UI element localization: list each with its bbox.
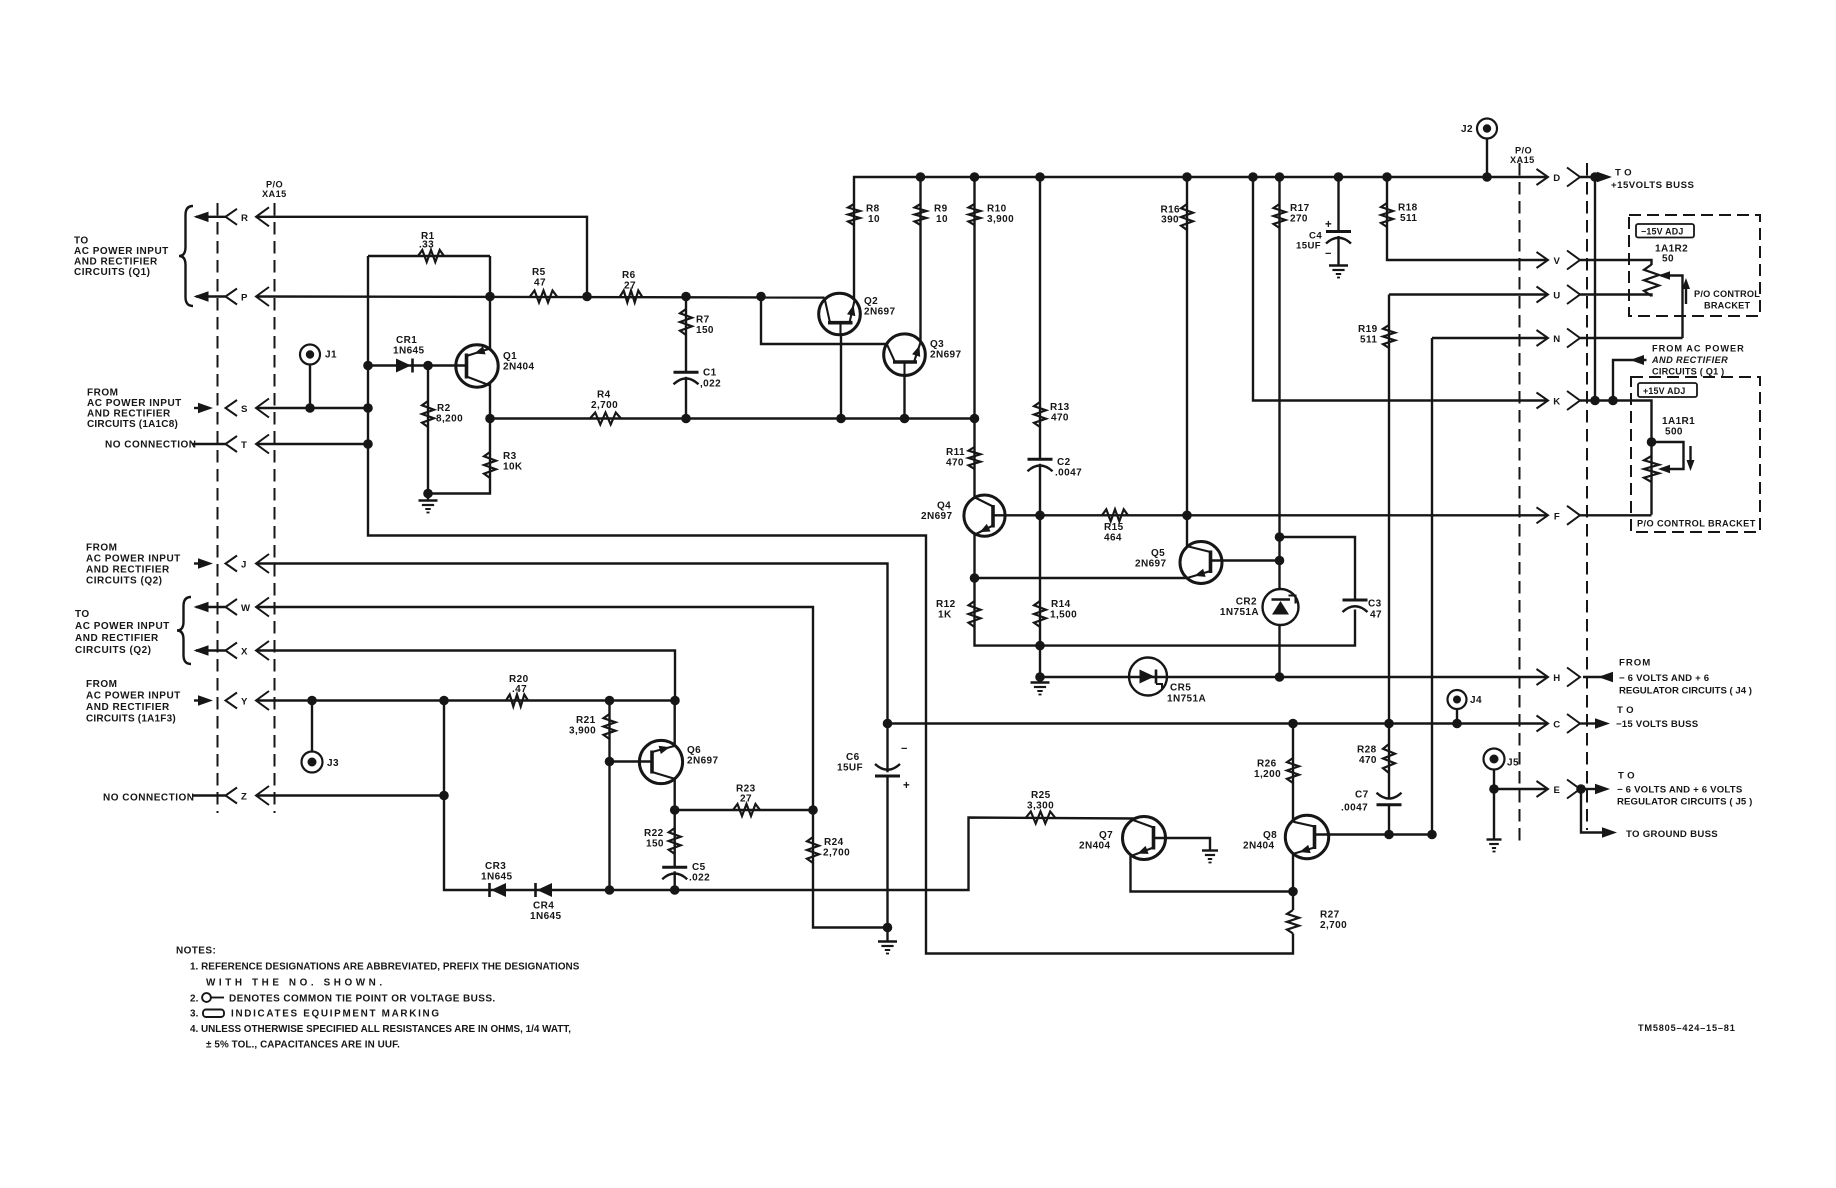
- svg-text:P/O: P/O: [266, 180, 283, 190]
- svg-text:X: X: [241, 647, 248, 658]
- svg-text:TM5805–424–15–81: TM5805–424–15–81: [1638, 1023, 1736, 1033]
- svg-text:Q7: Q7: [1099, 830, 1113, 841]
- svg-text:AND RECTIFIER: AND RECTIFIER: [87, 409, 171, 420]
- svg-text:P/O CONTROL BRACKET: P/O CONTROL BRACKET: [1637, 519, 1756, 529]
- svg-text:+: +: [1325, 219, 1332, 231]
- svg-text:C5: C5: [692, 862, 706, 873]
- svg-text:P/O CONTROL: P/O CONTROL: [1694, 289, 1760, 299]
- svg-text:R17: R17: [1290, 203, 1310, 214]
- svg-text:2N404: 2N404: [1079, 841, 1111, 852]
- svg-text:.33: .33: [419, 240, 434, 251]
- svg-text:WITH THE NO. SHOWN.: WITH THE NO. SHOWN.: [206, 978, 386, 989]
- svg-text:R11: R11: [946, 447, 965, 458]
- svg-text:R4: R4: [597, 390, 611, 401]
- svg-text:1N645: 1N645: [530, 911, 562, 922]
- svg-text:K: K: [1553, 397, 1560, 408]
- svg-text:2,700: 2,700: [823, 848, 850, 859]
- svg-text:C2: C2: [1057, 457, 1071, 468]
- svg-text:J1: J1: [325, 350, 337, 361]
- svg-text:C6: C6: [846, 752, 860, 763]
- svg-text:Q4: Q4: [937, 501, 951, 512]
- svg-text:464: 464: [1104, 533, 1122, 544]
- svg-text:R15: R15: [1104, 522, 1124, 533]
- svg-text:47: 47: [1370, 610, 1382, 621]
- svg-text:2N697: 2N697: [687, 756, 719, 767]
- svg-text:R19: R19: [1358, 324, 1378, 335]
- svg-text:2.: 2.: [190, 994, 199, 1005]
- svg-text:R6: R6: [622, 270, 636, 281]
- svg-text:− 6 VOLTS AND + 6: − 6 VOLTS AND + 6: [1619, 673, 1709, 684]
- svg-text:J3: J3: [327, 758, 339, 769]
- svg-text:FROM: FROM: [1619, 658, 1651, 669]
- svg-text:N: N: [1553, 334, 1560, 345]
- svg-text:50: 50: [1662, 254, 1674, 265]
- svg-text:15UF: 15UF: [837, 763, 863, 774]
- svg-text:FROM: FROM: [86, 543, 117, 554]
- svg-text:H: H: [1553, 673, 1560, 684]
- svg-text:R10: R10: [987, 204, 1007, 215]
- svg-text:R14: R14: [1051, 599, 1071, 610]
- svg-text:1N645: 1N645: [481, 872, 513, 883]
- svg-text:± 5% TOL., CAPACITANCES ARE IN: ± 5% TOL., CAPACITANCES ARE IN UUF.: [206, 1040, 400, 1051]
- svg-text:10K: 10K: [503, 462, 523, 473]
- svg-text:C: C: [1553, 720, 1560, 731]
- svg-text:C3: C3: [1368, 599, 1382, 610]
- svg-text:TO: TO: [1618, 771, 1638, 782]
- svg-text:3,900: 3,900: [987, 214, 1014, 225]
- svg-text:AND RECTIFIER: AND RECTIFIER: [86, 702, 170, 713]
- svg-text:−15V ADJ: −15V ADJ: [1641, 227, 1683, 237]
- svg-text:1K: 1K: [938, 610, 952, 621]
- svg-text:R9: R9: [934, 204, 948, 215]
- svg-text:10: 10: [936, 214, 948, 225]
- svg-text:TO: TO: [1615, 168, 1635, 179]
- svg-text:REGULATOR CIRCUITS ( J5 ): REGULATOR CIRCUITS ( J5 ): [1617, 797, 1752, 808]
- svg-text:J5: J5: [1507, 758, 1519, 769]
- svg-text:+: +: [903, 780, 910, 792]
- svg-text:D: D: [1553, 173, 1560, 184]
- svg-text:Y: Y: [241, 697, 248, 708]
- svg-text:2N697: 2N697: [1135, 559, 1167, 570]
- svg-text:R24: R24: [824, 837, 844, 848]
- svg-text:1. REFERENCE DESIGNATIONS ARE: 1. REFERENCE DESIGNATIONS ARE ABBREVIATE…: [190, 962, 580, 973]
- svg-text:2,700: 2,700: [1320, 920, 1347, 931]
- svg-text:150: 150: [696, 325, 714, 336]
- svg-text:511: 511: [1400, 213, 1417, 224]
- svg-text:TO GROUND BUSS: TO GROUND BUSS: [1626, 829, 1718, 840]
- svg-text:1N751A: 1N751A: [1167, 694, 1206, 705]
- svg-text:CR5: CR5: [1170, 683, 1191, 694]
- svg-text:NOTES:: NOTES:: [176, 946, 216, 957]
- svg-text:1,500: 1,500: [1050, 610, 1077, 621]
- svg-text:AC POWER INPUT: AC POWER INPUT: [75, 621, 170, 632]
- svg-text:R18: R18: [1398, 203, 1418, 214]
- svg-text:AND RECTIFIER: AND RECTIFIER: [75, 633, 159, 644]
- svg-text:CIRCUITS (Q1): CIRCUITS (Q1): [74, 267, 151, 278]
- svg-text:2N697: 2N697: [864, 307, 896, 318]
- svg-text:FROM AC POWER: FROM AC POWER: [1652, 344, 1745, 354]
- svg-text:R7: R7: [696, 315, 710, 326]
- svg-text:S: S: [241, 404, 248, 415]
- svg-text:T: T: [241, 440, 247, 451]
- svg-text:R2: R2: [437, 403, 451, 414]
- svg-text:AC POWER INPUT: AC POWER INPUT: [86, 691, 181, 702]
- svg-text:AC POWER INPUT: AC POWER INPUT: [74, 246, 169, 257]
- svg-text:CR1: CR1: [396, 335, 417, 346]
- svg-text:R22: R22: [644, 828, 664, 839]
- svg-text:E: E: [1554, 785, 1561, 796]
- svg-text:−: −: [1325, 248, 1331, 260]
- svg-text:R3: R3: [503, 451, 517, 462]
- svg-text:10: 10: [868, 214, 880, 225]
- svg-text:470: 470: [1359, 755, 1377, 766]
- svg-text:R26: R26: [1257, 759, 1277, 770]
- svg-text:.0047: .0047: [1055, 468, 1082, 479]
- svg-text:J: J: [241, 560, 247, 571]
- svg-text:CIRCUITS (Q2): CIRCUITS (Q2): [86, 576, 163, 587]
- svg-text:FROM: FROM: [86, 679, 117, 690]
- svg-text:4. UNLESS OTHERWISE SPECIFIED: 4. UNLESS OTHERWISE SPECIFIED ALL RESIST…: [190, 1024, 571, 1035]
- svg-text:150: 150: [646, 839, 664, 850]
- svg-text:R8: R8: [866, 204, 880, 215]
- svg-text:1A1R1: 1A1R1: [1662, 416, 1695, 427]
- svg-text:− 6 VOLTS AND + 6 VOLTS: − 6 VOLTS AND + 6 VOLTS: [1617, 785, 1743, 796]
- svg-text:CR4: CR4: [533, 901, 554, 912]
- svg-text:1N645: 1N645: [393, 346, 425, 357]
- svg-text:470: 470: [1051, 413, 1069, 424]
- svg-text:270: 270: [1290, 214, 1308, 225]
- svg-text:500: 500: [1665, 427, 1683, 438]
- svg-text:P: P: [241, 293, 248, 304]
- svg-text:470: 470: [946, 458, 964, 469]
- svg-text:27: 27: [740, 794, 752, 805]
- svg-text:.0047: .0047: [1341, 803, 1368, 814]
- svg-text:Q6: Q6: [687, 745, 701, 756]
- svg-text:F: F: [1554, 511, 1560, 522]
- svg-text:511: 511: [1360, 335, 1377, 346]
- svg-text:3,300: 3,300: [1027, 801, 1054, 812]
- svg-text:INDICATES EQUIPMENT MARKING: INDICATES EQUIPMENT MARKING: [231, 1009, 441, 1020]
- svg-text:AND RECTIFIER: AND RECTIFIER: [1651, 355, 1728, 365]
- svg-text:CR2: CR2: [1236, 597, 1257, 608]
- svg-text:R21: R21: [576, 715, 596, 726]
- svg-text:+15VOLTS BUSS: +15VOLTS BUSS: [1611, 180, 1694, 191]
- svg-text:R27: R27: [1320, 910, 1340, 921]
- svg-text:R5: R5: [532, 267, 546, 278]
- svg-text:J2: J2: [1461, 124, 1473, 135]
- svg-text:REGULATOR CIRCUITS ( J4 ): REGULATOR CIRCUITS ( J4 ): [1619, 686, 1752, 697]
- svg-text:AC POWER INPUT: AC POWER INPUT: [87, 398, 182, 409]
- svg-text:TO: TO: [75, 609, 90, 620]
- svg-text:2N697: 2N697: [930, 350, 962, 361]
- svg-text:XA15: XA15: [262, 189, 287, 199]
- svg-text:Q5: Q5: [1151, 548, 1165, 559]
- svg-text:V: V: [1554, 256, 1561, 267]
- svg-text:FROM: FROM: [87, 388, 118, 399]
- svg-text:R12: R12: [936, 599, 956, 610]
- svg-text:R: R: [241, 213, 248, 224]
- svg-text:NO CONNECTION: NO CONNECTION: [103, 793, 195, 804]
- svg-text:47: 47: [534, 278, 546, 289]
- svg-text:.47: .47: [512, 684, 527, 695]
- svg-text:AND RECTIFIER: AND RECTIFIER: [86, 565, 170, 576]
- svg-text:R25: R25: [1031, 790, 1051, 801]
- svg-text:Q2: Q2: [864, 296, 878, 307]
- svg-text:−15 VOLTS BUSS: −15 VOLTS BUSS: [1616, 719, 1699, 730]
- svg-text:Q3: Q3: [930, 339, 944, 350]
- svg-text:3,900: 3,900: [569, 726, 596, 737]
- svg-text:,022: ,022: [700, 379, 721, 390]
- svg-text:U: U: [1553, 291, 1560, 302]
- svg-text:2N404: 2N404: [503, 362, 535, 373]
- svg-text:1N751A: 1N751A: [1220, 607, 1259, 618]
- svg-text:DENOTES COMMON TIE POINT OR VO: DENOTES COMMON TIE POINT OR VOLTAGE BUSS…: [229, 994, 496, 1005]
- svg-text:NO CONNECTION: NO CONNECTION: [105, 440, 197, 451]
- svg-text:AC POWER INPUT: AC POWER INPUT: [86, 554, 181, 565]
- svg-text:C7: C7: [1355, 790, 1369, 801]
- svg-text:8,200: 8,200: [436, 414, 463, 425]
- svg-text:C1: C1: [703, 368, 717, 379]
- svg-text:390: 390: [1161, 215, 1179, 226]
- svg-text:TO: TO: [74, 236, 89, 247]
- svg-text:27: 27: [624, 281, 636, 292]
- svg-text:1,200: 1,200: [1254, 769, 1281, 780]
- svg-text:J4: J4: [1470, 695, 1482, 706]
- svg-text:Q8: Q8: [1263, 830, 1277, 841]
- svg-text:CIRCUITS (1A1C8): CIRCUITS (1A1C8): [87, 419, 178, 430]
- svg-text:CIRCUITS (Q2): CIRCUITS (Q2): [75, 645, 152, 656]
- svg-text:Z: Z: [241, 792, 247, 803]
- svg-text:2N697: 2N697: [921, 511, 953, 522]
- svg-text:Q1: Q1: [503, 351, 517, 362]
- svg-text:−: −: [901, 743, 908, 755]
- svg-text:CIRCUITS (1A1F3): CIRCUITS (1A1F3): [86, 714, 176, 725]
- svg-text:+15V ADJ: +15V ADJ: [1643, 386, 1685, 396]
- svg-text:15UF: 15UF: [1296, 241, 1321, 252]
- svg-text:3.: 3.: [190, 1009, 199, 1020]
- svg-text:XA15: XA15: [1510, 155, 1535, 165]
- svg-text:R28: R28: [1357, 745, 1377, 756]
- svg-text:W: W: [241, 603, 251, 614]
- svg-text:CR3: CR3: [485, 861, 506, 872]
- svg-text:BRACKET: BRACKET: [1704, 301, 1751, 311]
- svg-text:.022: .022: [689, 873, 710, 884]
- svg-text:2,700: 2,700: [591, 400, 618, 411]
- svg-text:AND RECTIFIER: AND RECTIFIER: [74, 257, 158, 268]
- svg-text:R13: R13: [1050, 402, 1070, 413]
- svg-text:CIRCUITS ( Q1 ): CIRCUITS ( Q1 ): [1652, 367, 1724, 377]
- svg-text:TO: TO: [1617, 705, 1637, 716]
- svg-text:2N404: 2N404: [1243, 841, 1275, 852]
- svg-text:P/O: P/O: [1515, 146, 1532, 156]
